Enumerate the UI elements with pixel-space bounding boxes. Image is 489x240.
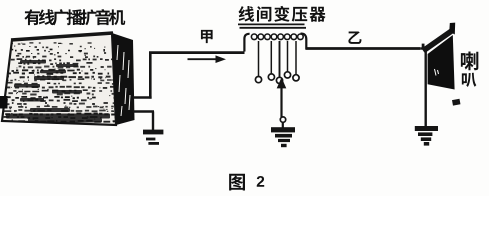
ground: middle earth symbol — [271, 127, 295, 147]
amplifier box (wired-broadcast amplifier cabinet) — [0, 33, 135, 125]
label: loudspeaker (laba), stacked — [461, 52, 478, 88]
transformer winding (coil) — [244, 34, 306, 52]
caption: figure 2 — [229, 174, 264, 191]
label yi — [348, 31, 361, 43]
ground: left earth symbol — [143, 130, 163, 145]
wire: box to earth — [133, 110, 154, 112]
wire: loudspeaker to earth — [425, 47, 427, 127]
label jia — [201, 30, 213, 43]
wire: vertical riser — [149, 52, 152, 99]
wiper arrow (tap selector) — [277, 77, 287, 117]
wire: transformer to loudspeaker (line yi) — [306, 47, 421, 50]
wire: top run to transformer (line jia) — [149, 51, 245, 54]
amplifier box: dark right side panel — [112, 33, 135, 125]
transformer taps — [259, 41, 297, 77]
ground: right earth symbol — [415, 126, 438, 146]
tap terminal circles — [255, 72, 299, 84]
transformer label — [239, 6, 326, 22]
arrow: current direction on line jia — [188, 55, 227, 63]
wire: wiper to earth — [282, 122, 284, 128]
label: amplifier title text — [24, 9, 125, 25]
connector circle on wiper lead — [280, 117, 285, 122]
wire: box output to corner node — [133, 96, 152, 99]
amplifier box: left protrusion — [0, 96, 8, 109]
transformer core (double line) — [238, 24, 306, 27]
loudspeaker symbol — [422, 23, 461, 106]
